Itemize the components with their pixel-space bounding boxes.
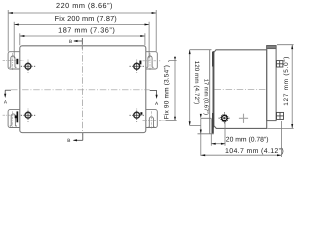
dim 104.7 xyxy=(201,121,282,157)
dim 187 mm line xyxy=(20,33,145,45)
plate outline xyxy=(20,46,146,133)
screws xyxy=(277,61,284,120)
section A left arrow xyxy=(5,90,11,94)
svg-text:17 mm (0.67”): 17 mm (0.67”) xyxy=(203,79,210,115)
section A right arrow xyxy=(150,90,157,95)
dim 220 mm line xyxy=(8,10,156,52)
svg-text:20 mm (0.78”): 20 mm (0.78”) xyxy=(226,137,269,144)
svg-text:B: B xyxy=(69,39,72,44)
svg-text:220 mm (8.66”): 220 mm (8.66”) xyxy=(56,1,113,10)
cap xyxy=(267,46,276,121)
svg-text:Fix 90 mm (3.54”): Fix 90 mm (3.54”) xyxy=(164,65,171,119)
ear bottom-left xyxy=(8,110,20,128)
back edge dark xyxy=(212,51,214,128)
svg-text:120 mm (4.72”): 120 mm (4.72”) xyxy=(193,61,200,105)
knob xyxy=(220,114,228,122)
dim 120 xyxy=(190,50,212,126)
svg-text:Fix 200 mm (7.87): Fix 200 mm (7.87) xyxy=(55,14,117,23)
ear top-left xyxy=(8,52,20,69)
section B top mark xyxy=(74,38,82,49)
horizontal centerline A-A xyxy=(11,89,150,91)
vertical centerline xyxy=(81,44,83,135)
dim 20 xyxy=(211,118,225,145)
box body xyxy=(214,50,267,129)
svg-text:104.7 mm (4.12”): 104.7 mm (4.12”) xyxy=(225,147,284,155)
cross mark xyxy=(239,114,248,123)
Fix 90 dim xyxy=(166,60,177,120)
dim Fix 200 mm line xyxy=(14,22,149,59)
plate edge-on xyxy=(209,50,211,134)
holes (4x) xyxy=(21,60,144,122)
dim 17 xyxy=(200,118,202,156)
dim 127 xyxy=(268,45,294,129)
ear bottom-right xyxy=(146,110,158,128)
ear top-right xyxy=(146,52,158,69)
svg-text:127 mm (5.0”): 127 mm (5.0”) xyxy=(283,56,290,106)
svg-text:B: B xyxy=(67,138,70,143)
section B bottom mark xyxy=(74,133,83,141)
horizontal centerline xyxy=(215,89,267,91)
svg-text:187 mm (7.36”): 187 mm (7.36”) xyxy=(58,26,115,35)
